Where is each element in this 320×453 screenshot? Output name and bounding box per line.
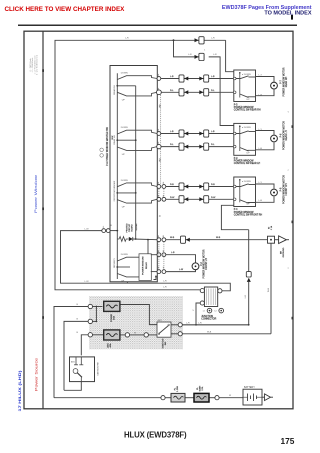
grid numbers right bbox=[288, 111, 290, 269]
svg-text:W-B: W-B bbox=[207, 331, 212, 333]
power window motor rear rh bbox=[271, 82, 278, 89]
ground point triangle bbox=[275, 236, 290, 244]
svg-text:ILLUMI: ILLUMI bbox=[136, 223, 138, 230]
svg-text:FRONT PASSENGER: FRONT PASSENGER bbox=[113, 180, 116, 201]
wire L-W left loop bbox=[61, 231, 231, 291]
svg-text:L-B: L-B bbox=[171, 252, 175, 254]
wire contact to jc row bbox=[171, 324, 178, 326]
wire battery feed row1 bbox=[54, 307, 88, 398]
svg-text:Power Source: Power Source bbox=[35, 358, 39, 391]
connector pair top row2 bbox=[195, 53, 205, 60]
svg-text:L-R: L-R bbox=[211, 38, 215, 40]
diode D bbox=[129, 237, 133, 241]
grid tick left 2 bbox=[42, 69, 44, 72]
svg-text:BATTERY: BATTERY bbox=[244, 386, 255, 389]
svg-text:L-R: L-R bbox=[163, 280, 167, 282]
wire vertical to ignition bbox=[248, 230, 250, 272]
jc pin right top bbox=[218, 289, 222, 293]
power window motor front rh bbox=[271, 189, 278, 196]
svg-text:175: 175 bbox=[281, 436, 295, 446]
battery circle right bbox=[215, 396, 219, 400]
wire row3 am1 bbox=[81, 335, 88, 356]
switch unit front passenger bbox=[117, 183, 157, 203]
wire row ground W-B bbox=[166, 239, 268, 241]
master switch caption P-9 bbox=[106, 126, 114, 165]
power window control sw rear lh P-3 bbox=[233, 123, 255, 155]
wire relay coil feed bbox=[147, 239, 149, 254]
svg-text:CONTROL SW REAR LH: CONTROL SW REAR LH bbox=[234, 162, 261, 165]
svg-text:POWER WINDOW: POWER WINDOW bbox=[143, 255, 145, 274]
wire row1-row2 link bbox=[95, 307, 97, 322]
svg-text:IGNITION SW: IGNITION SW bbox=[97, 362, 99, 375]
svg-text:REAR RH: REAR RH bbox=[113, 85, 116, 95]
power window motor front lh bbox=[192, 263, 199, 270]
jc spare pin 2 bbox=[219, 308, 224, 313]
svg-text:L-R: L-R bbox=[163, 287, 167, 289]
caption junction connector bbox=[201, 316, 216, 321]
connector grouping dashed line bbox=[159, 95, 164, 270]
svg-text:L-R: L-R bbox=[188, 54, 192, 56]
svg-text:L-B: L-B bbox=[259, 94, 263, 96]
wire row front lh down bbox=[166, 255, 196, 263]
fuse AM1 bbox=[104, 330, 120, 340]
svg-text:DOWN: DOWN bbox=[121, 127, 128, 129]
bookmark tick bbox=[291, 15, 293, 20]
caption ground point bbox=[281, 247, 286, 257]
svg-text:1: 1 bbox=[163, 195, 164, 197]
svg-text:2: 2 bbox=[158, 88, 159, 90]
connector circle row1 bbox=[88, 304, 92, 308]
grid tick right 5 bbox=[292, 221, 294, 224]
svg-text:4: 4 bbox=[158, 75, 159, 77]
svg-text:P-9 POWER WINDOW MASTER SW: P-9 POWER WINDOW MASTER SW bbox=[106, 126, 109, 165]
ignition sw contact box bbox=[157, 319, 171, 337]
svg-text:W-B: W-B bbox=[268, 287, 270, 292]
jc pin left bottom bbox=[200, 301, 204, 305]
wire fuse2 to contact box bbox=[120, 334, 125, 336]
connector pair top row1 bbox=[195, 37, 207, 52]
svg-text:L-B: L-B bbox=[259, 200, 263, 202]
page outer border bbox=[24, 31, 293, 409]
connector circle row2 bbox=[88, 319, 92, 323]
svg-text:L-R: L-R bbox=[198, 322, 202, 324]
margin divider bbox=[42, 31, 44, 409]
svg-text:RELAY: RELAY bbox=[145, 262, 148, 270]
caption motor rear rh bbox=[281, 67, 288, 96]
svg-text:CONNECTOR: CONNECTOR bbox=[201, 319, 216, 321]
wires block to motor front rh bbox=[255, 184, 274, 202]
svg-text:L-R: L-R bbox=[186, 322, 190, 324]
master switch inner bus right bbox=[135, 86, 137, 239]
svg-text:L-R: L-R bbox=[213, 54, 217, 56]
wire fuse1 to ignition contact bbox=[120, 305, 157, 325]
connector row 199.3 b bbox=[199, 196, 208, 203]
svg-text:CLICK HERE TO VIEW CHAPTER IND: CLICK HERE TO VIEW CHAPTER INDEX bbox=[5, 6, 126, 13]
junction dot bus bbox=[173, 39, 175, 41]
svg-text:1J: 1J bbox=[202, 311, 204, 313]
svg-text:5J: 5J bbox=[214, 311, 216, 313]
svg-text:UP: UP bbox=[247, 204, 251, 206]
switch unit rear rh bbox=[117, 76, 157, 96]
wires block to motor rear rh bbox=[255, 77, 274, 96]
caption rear lh block bbox=[234, 158, 261, 165]
connector row 133.5 a bbox=[179, 130, 188, 137]
caption motor front rh bbox=[281, 175, 288, 204]
svg-text:40A: 40A bbox=[109, 343, 112, 347]
svg-text:TO MODEL INDEX: TO MODEL INDEX bbox=[264, 10, 311, 16]
svg-text:R-B: R-B bbox=[211, 184, 215, 186]
master switch caption circled 1 bbox=[100, 148, 104, 152]
svg-text:7: 7 bbox=[163, 268, 164, 270]
svg-text:REAR LH: REAR LH bbox=[285, 130, 288, 140]
wire front rh out down bbox=[221, 205, 248, 229]
battery bbox=[243, 389, 262, 405]
svg-text:UP: UP bbox=[247, 153, 251, 155]
ignition key switch box bbox=[70, 357, 95, 382]
wires block to motor rear lh bbox=[255, 131, 274, 150]
caption junction IG bbox=[269, 225, 274, 230]
fusible link FL bbox=[171, 393, 185, 402]
svg-text:DOWN: DOWN bbox=[121, 73, 128, 75]
master switch pins right edge bbox=[157, 77, 166, 274]
svg-text:W-B: W-B bbox=[216, 237, 221, 239]
power window control sw rear rh P-5 bbox=[233, 70, 255, 102]
svg-text:UP: UP bbox=[121, 280, 125, 282]
svg-text:17 HILUX (LHD): 17 HILUX (LHD) bbox=[18, 369, 22, 411]
wire resistor row to pin bbox=[133, 238, 157, 241]
pin number marks bbox=[89, 75, 164, 333]
svg-text:UP: UP bbox=[122, 99, 126, 101]
fuse POWER 30A bbox=[104, 301, 120, 311]
svg-text:▸ DOWN: ▸ DOWN bbox=[242, 73, 251, 76]
svg-text:5: 5 bbox=[158, 143, 159, 145]
caption front rh block bbox=[234, 209, 263, 216]
jc spare pin 1 bbox=[207, 308, 212, 313]
svg-text:L-Y: L-Y bbox=[259, 182, 263, 184]
svg-text:L-Y: L-Y bbox=[259, 129, 263, 131]
caption fuse am1 bbox=[107, 342, 113, 347]
power window relay box bbox=[139, 254, 151, 281]
connector row 186.5 b bbox=[199, 183, 208, 190]
connector row 78.5 b bbox=[199, 75, 208, 82]
wiring rows to door switches bbox=[161, 79, 268, 272]
caption rear rh block bbox=[234, 104, 261, 111]
wire master bottom exit bbox=[126, 282, 128, 283]
connector row 92.3 a bbox=[179, 89, 188, 96]
connector row 146.6 a bbox=[179, 143, 188, 150]
grid tick left 6 bbox=[42, 316, 44, 319]
caption motor front lh bbox=[201, 249, 208, 278]
svg-text:8: 8 bbox=[158, 236, 159, 238]
svg-text:CONTROL SW REAR RH: CONTROL SW REAR RH bbox=[234, 109, 261, 112]
connector row 78.5 a bbox=[179, 75, 188, 82]
grid tick right 4 bbox=[292, 125, 294, 128]
grid tick right bottom bbox=[292, 317, 294, 320]
svg-text:2: 2 bbox=[158, 183, 159, 185]
connector row 92.3 b bbox=[199, 89, 208, 96]
svg-text:FRONT LH: FRONT LH bbox=[206, 258, 208, 270]
wires power source left bbox=[54, 305, 271, 398]
svg-text:MAIN: MAIN bbox=[199, 385, 202, 391]
svg-text:L-B: L-B bbox=[211, 76, 215, 78]
svg-text:L-R: L-R bbox=[125, 38, 129, 40]
wire row front rh down bbox=[166, 186, 234, 188]
svg-text:REAR LH: REAR LH bbox=[113, 135, 116, 145]
svg-text:L-B: L-B bbox=[211, 131, 215, 133]
master switch inner bus left bbox=[116, 73, 118, 279]
svg-text:2: 2 bbox=[163, 183, 164, 185]
margin legend text bbox=[30, 55, 39, 75]
svg-text:L-B: L-B bbox=[170, 131, 174, 133]
contact box right pins bbox=[178, 323, 182, 327]
svg-text:▸ DOWN: ▸ DOWN bbox=[242, 126, 251, 129]
wire row rear rh up bbox=[161, 91, 234, 93]
svg-text:UP: UP bbox=[122, 154, 126, 156]
caption motor rear lh bbox=[281, 121, 288, 150]
resistor R bbox=[117, 237, 128, 242]
master switch pin B left edge bbox=[102, 229, 110, 233]
wire L-R top bus bbox=[55, 40, 226, 289]
wire connector loop top bbox=[174, 40, 199, 57]
svg-text:REAR RH: REAR RH bbox=[285, 76, 288, 87]
wire row rear rh down bbox=[161, 78, 234, 80]
jc pin left top bbox=[200, 289, 204, 293]
fusible link FL MAIN bbox=[194, 393, 209, 402]
svg-text:8: 8 bbox=[163, 236, 164, 238]
arrow to next page bbox=[262, 394, 273, 401]
pcb labels bbox=[127, 223, 139, 233]
svg-text:2 : w/o Theft Deterrent: 2 : w/o Theft Deterrent bbox=[36, 55, 39, 75]
svg-text:3: 3 bbox=[158, 251, 159, 253]
svg-text:1.25B: 1.25B bbox=[177, 386, 179, 392]
svg-text:HLUX (EWD378F): HLUX (EWD378F) bbox=[124, 431, 187, 440]
svg-text:1: 1 bbox=[158, 195, 159, 197]
wire jc left bottom to ignition bbox=[196, 303, 200, 325]
svg-text:DOWN: DOWN bbox=[121, 180, 128, 182]
connector row 199.3 a bbox=[179, 196, 188, 203]
switch unit rear lh bbox=[117, 130, 157, 150]
relay out wires bbox=[151, 254, 157, 256]
svg-text:UP: UP bbox=[247, 99, 251, 101]
svg-text:Power Window: Power Window bbox=[34, 174, 38, 213]
connector row 239.7 bbox=[181, 236, 190, 243]
svg-text:DRIVER'S: DRIVER'S bbox=[114, 258, 116, 268]
svg-text:L-R: L-R bbox=[245, 294, 247, 298]
svg-text:1: 1 bbox=[103, 227, 104, 229]
header rule bbox=[18, 24, 297, 26]
svg-text:UP: UP bbox=[122, 207, 126, 209]
wire row2 ig bbox=[64, 321, 88, 390]
wire bottom battery run bbox=[54, 397, 161, 399]
wire row front rh up bbox=[166, 198, 234, 200]
wire W-B bottom bbox=[182, 333, 271, 335]
wire connector2 to rear lh bbox=[209, 57, 234, 126]
wire row front lh up bbox=[166, 270, 196, 272]
junction W-B box bbox=[268, 236, 275, 243]
wire ignition bottom loop bbox=[64, 382, 81, 391]
svg-text:GROUND: GROUND bbox=[283, 247, 285, 257]
row labels bbox=[170, 76, 221, 271]
svg-text:FRONT RH: FRONT RH bbox=[286, 183, 288, 195]
battery feed circle left bbox=[161, 396, 165, 400]
svg-text:7: 7 bbox=[158, 268, 159, 270]
svg-text:BOARD: BOARD bbox=[131, 224, 134, 232]
svg-text:3: 3 bbox=[163, 251, 164, 253]
svg-text:DOWN: DOWN bbox=[121, 254, 128, 256]
connector row 186.5 a bbox=[179, 183, 188, 190]
svg-text:6: 6 bbox=[158, 130, 159, 132]
svg-text:▸ DOWN: ▸ DOWN bbox=[242, 180, 251, 183]
svg-text:R-B: R-B bbox=[170, 184, 174, 186]
svg-text:CONTROL SW FRONT RH: CONTROL SW FRONT RH bbox=[234, 214, 263, 216]
wire W-B down from junction box bbox=[270, 243, 272, 333]
power window master switch P-9 box bbox=[110, 66, 157, 282]
lock switch arrow bbox=[154, 277, 157, 280]
power window motor rear lh bbox=[271, 135, 278, 142]
feed wire from B pin bbox=[110, 230, 117, 232]
master switch caption circled 2 bbox=[100, 154, 104, 158]
svg-text:L-B: L-B bbox=[170, 76, 174, 78]
wire row rear lh down bbox=[161, 133, 234, 135]
caption fuse power bbox=[111, 313, 116, 322]
switch unit driver's bbox=[117, 257, 139, 277]
wire row rear lh up bbox=[161, 146, 234, 148]
svg-text:AM1: AM1 bbox=[107, 342, 110, 347]
caption ignition contact bbox=[163, 338, 168, 348]
connector circles am1 row bbox=[125, 333, 129, 337]
wire bus drop to rear rh bbox=[226, 40, 234, 71]
svg-text:L-Y: L-Y bbox=[259, 75, 263, 77]
svg-text:W-B: W-B bbox=[170, 237, 175, 239]
pin wire id marks bbox=[160, 104, 162, 217]
grid tick left 4 bbox=[42, 208, 44, 211]
inline connector pairs mid rows bbox=[179, 75, 209, 243]
connector row 146.6 b bbox=[199, 143, 208, 150]
engine room junction block shading bbox=[89, 296, 183, 349]
connector circle row3 bbox=[88, 333, 92, 337]
connector row 133.5 b bbox=[199, 130, 208, 137]
svg-text:AM1: AM1 bbox=[71, 361, 75, 364]
junction connector J/C bbox=[204, 287, 217, 307]
svg-text:30A: 30A bbox=[113, 316, 116, 320]
inline connector on vertical L-R bbox=[246, 272, 251, 282]
svg-text:L-B: L-B bbox=[259, 148, 263, 150]
power window control sw front rh P-4 bbox=[233, 177, 255, 207]
